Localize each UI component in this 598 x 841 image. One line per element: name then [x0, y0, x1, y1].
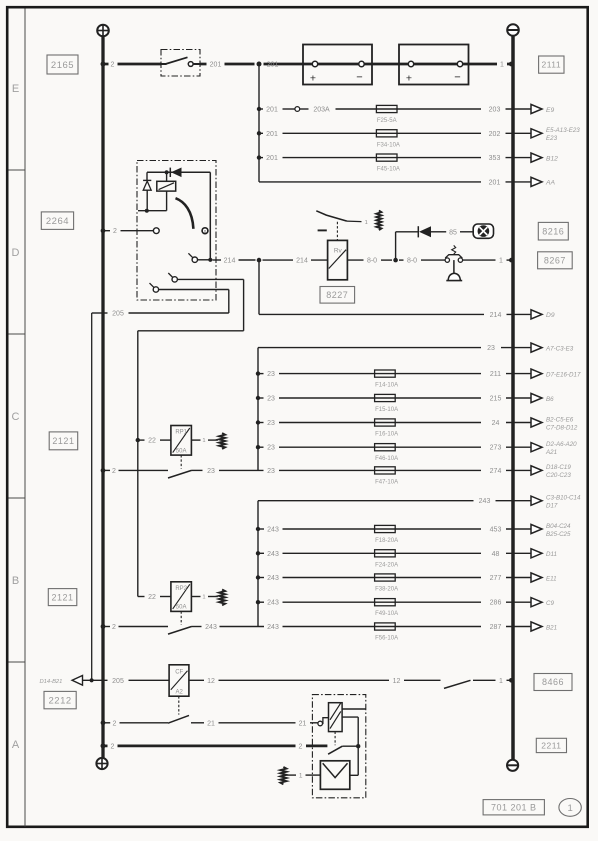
arrow to C9 [531, 598, 542, 607]
arrow to B12 [531, 153, 542, 162]
node 31 right ground bus [511, 36, 515, 760]
svg-text:F16-10A: F16-10A [375, 432, 398, 438]
pressure switch S2 [445, 258, 449, 262]
terminal minus bottom [507, 760, 518, 771]
svg-text:50A: 50A [176, 605, 187, 611]
svg-text:F34-10A: F34-10A [377, 142, 400, 148]
svg-text:E: E [12, 83, 19, 95]
fuse F56-10A [375, 623, 396, 630]
fuse F15-10A [375, 394, 396, 401]
mech link regulator [334, 732, 336, 746]
label 2165 [47, 55, 78, 74]
wire 22 to RP1 [136, 438, 140, 442]
svg-text:D7-E16-D17: D7-E16-D17 [546, 371, 581, 378]
svg-text:D17: D17 [546, 503, 558, 510]
relay RP1 [171, 426, 192, 456]
diode CR3 [417, 226, 419, 237]
svg-text:2121: 2121 [52, 436, 74, 446]
svg-text:50A: 50A [176, 448, 187, 454]
svg-text:24: 24 [492, 420, 500, 427]
svg-text:243: 243 [267, 551, 279, 558]
svg-text:8216: 8216 [542, 226, 564, 236]
svg-text:1: 1 [500, 62, 504, 69]
wire 201/353 fuse F45 [259, 157, 263, 159]
wire contact1 to node [198, 259, 211, 261]
svg-text:2165: 2165 [51, 60, 74, 71]
arrow to AA [531, 177, 542, 186]
svg-text:+: + [406, 73, 412, 85]
relay RP2 [171, 582, 192, 612]
svg-text:211: 211 [490, 371, 501, 378]
svg-text:F15-10A: F15-10A [375, 407, 398, 413]
wire to solenoid node [342, 745, 358, 747]
svg-text:CF: CF [175, 669, 183, 675]
fuse F38-20A [375, 574, 396, 581]
wire blade to spring [347, 220, 362, 223]
node 214 junction [257, 258, 262, 263]
node 8-0 [393, 258, 398, 263]
mech link RP2 [180, 611, 182, 624]
fuse F18-20A [375, 525, 396, 532]
wire regulator stub [342, 708, 366, 710]
svg-text:8227: 8227 [326, 290, 348, 300]
svg-text:E11: E11 [546, 575, 557, 582]
label 2111 [539, 56, 564, 73]
page number 1 [559, 799, 581, 817]
svg-text:+: + [310, 73, 316, 85]
svg-text:B21: B21 [546, 624, 557, 631]
diode CR2 [143, 179, 151, 181]
svg-text:C9: C9 [546, 600, 554, 607]
svg-text:A: A [12, 739, 20, 751]
svg-text:203: 203 [489, 107, 501, 114]
arrow to D9 [531, 310, 542, 319]
svg-text:F45-10A: F45-10A [377, 167, 400, 173]
wire 23 to A7-C3-E3 [258, 347, 481, 349]
svg-text:D18-C19: D18-C19 [546, 464, 571, 471]
wire 243 row fuse F56-10A [220, 626, 265, 628]
svg-text:A21: A21 [545, 449, 557, 456]
svg-text:201: 201 [266, 155, 278, 162]
svg-text:C3-B10-C14: C3-B10-C14 [546, 495, 581, 502]
svg-text:201: 201 [489, 179, 501, 186]
svg-text:203A: 203A [313, 107, 330, 114]
svg-text:B25-C25: B25-C25 [546, 531, 571, 538]
label 701 201 B [483, 800, 544, 815]
wire 1 to solenoid [287, 774, 296, 776]
label 2121 lower [48, 589, 77, 606]
wire 23 row fuse F15-10A [258, 397, 264, 399]
svg-text:243: 243 [267, 600, 279, 607]
svg-text:1: 1 [202, 595, 205, 601]
wire 2/21 row [101, 720, 106, 725]
label 2212 [44, 691, 76, 708]
wire 23 row fuse F16-10A [258, 422, 264, 424]
wire internal top [147, 171, 210, 173]
wire 1 battery to ground bus [469, 63, 498, 66]
svg-text:21: 21 [299, 720, 307, 727]
wire 23 row fuse F46-10A [258, 446, 264, 448]
svg-text:2: 2 [111, 743, 115, 750]
arrow to D2-A6-A20 [531, 443, 542, 452]
svg-text:23: 23 [267, 445, 275, 452]
svg-text:F24-20A: F24-20A [375, 562, 398, 568]
svg-text:205: 205 [112, 311, 124, 318]
svg-text:23: 23 [207, 468, 215, 475]
wire 85 [431, 231, 446, 233]
contact 2 [172, 277, 177, 282]
spring anchor relay [376, 211, 381, 231]
wire internal bottom [138, 210, 167, 212]
svg-text:201: 201 [267, 62, 279, 69]
starter solenoid M1 [320, 761, 349, 790]
svg-text:D: D [12, 247, 20, 259]
svg-text:12: 12 [393, 678, 401, 685]
contact feed [153, 228, 159, 234]
label 8466 [534, 674, 572, 691]
wire 12 row [189, 679, 204, 681]
fuse F16-10A [375, 419, 396, 426]
wire 1 to ground bus [463, 259, 496, 261]
svg-text:205: 205 [112, 678, 124, 685]
label 8216 [538, 222, 568, 240]
svg-text:243: 243 [267, 624, 279, 631]
battery G1 [303, 45, 372, 85]
svg-text:202: 202 [489, 131, 501, 138]
terminal minus top [507, 24, 519, 36]
arrow to C3-B10-C14 [531, 496, 542, 505]
arrow to B2-C5-E6 [531, 418, 542, 427]
ignition lock housing [137, 161, 216, 301]
svg-text:201: 201 [210, 62, 222, 69]
time relay CF [169, 665, 189, 696]
wire 2 to ignition [103, 230, 110, 232]
wire 23 row fuse F47-10A [219, 469, 264, 471]
svg-text:F49-10A: F49-10A [375, 611, 398, 617]
arrow to D18-C19 [531, 466, 542, 475]
svg-text:B: B [12, 575, 19, 587]
svg-text:243: 243 [479, 498, 491, 505]
svg-text:C: C [12, 411, 20, 423]
terminal plus top [97, 25, 109, 37]
warning lamp H1 [473, 224, 493, 238]
svg-text:2212: 2212 [49, 696, 72, 707]
switch S4 [168, 715, 189, 723]
svg-text:1: 1 [365, 220, 368, 226]
svg-text:F46-10A: F46-10A [375, 456, 398, 462]
spring anchor RP1 [219, 433, 225, 449]
connector on wire 203A [295, 107, 300, 112]
svg-text:RP1: RP1 [175, 430, 187, 436]
svg-text:277: 277 [490, 575, 502, 582]
wire RP2 to spring [191, 596, 200, 598]
svg-text:1: 1 [499, 258, 503, 265]
terminal plus bottom [96, 758, 107, 769]
spring anchor RP2 [219, 590, 225, 606]
svg-text:D11: D11 [546, 551, 557, 558]
wire 201 switch to battery [200, 63, 207, 66]
svg-text:2111: 2111 [541, 60, 561, 70]
svg-text:243: 243 [267, 527, 279, 534]
arrow to E9 [531, 104, 542, 113]
arrow to B21 [531, 622, 542, 631]
svg-text:2: 2 [112, 468, 116, 475]
svg-text:8466: 8466 [542, 677, 564, 687]
svg-text:353: 353 [489, 155, 501, 162]
rotary wiper arc [176, 198, 194, 229]
svg-text:C20-C23: C20-C23 [546, 472, 571, 479]
switch S3 [444, 680, 471, 688]
wire 23 row fuse F14-10A [258, 373, 264, 375]
node 23 distribution [257, 348, 259, 471]
svg-text:2: 2 [299, 743, 303, 750]
svg-text:AA: AA [545, 180, 555, 187]
wire 243 row fuse F24-20A [258, 552, 264, 554]
wire 201/203A fuse F25 [259, 108, 263, 110]
svg-text:2: 2 [113, 720, 117, 727]
label 2121 upper [49, 432, 77, 450]
battery master switch S1 [161, 50, 200, 77]
svg-text:2: 2 [113, 228, 117, 235]
svg-text:B6: B6 [546, 396, 554, 403]
svg-text:2: 2 [111, 62, 115, 69]
svg-text:B2-C5-E6: B2-C5-E6 [546, 416, 574, 423]
svg-text:243: 243 [205, 624, 217, 631]
arrow to D11 [531, 549, 542, 558]
contact 1 [192, 257, 197, 262]
svg-text:A2: A2 [176, 690, 184, 696]
starter switch blade [328, 746, 342, 754]
svg-text:B12: B12 [546, 155, 558, 162]
svg-text:286: 286 [490, 600, 502, 607]
svg-text:1: 1 [299, 773, 303, 780]
wire 205 row [83, 679, 108, 681]
wire 201/202 fuse F34 [259, 132, 263, 134]
relay switch blade [316, 211, 347, 221]
regulator U1 [329, 703, 343, 732]
svg-text:F14-10A: F14-10A [375, 383, 398, 389]
svg-text:2211: 2211 [541, 741, 561, 751]
alternator housing [312, 695, 365, 798]
svg-text:201: 201 [266, 131, 278, 138]
label 2264 [41, 212, 73, 230]
relay fixed plate [318, 229, 327, 231]
svg-text:D2-A6-A20: D2-A6-A20 [546, 441, 577, 448]
fuse F24-20A [375, 550, 396, 557]
svg-text:F56-10A: F56-10A [375, 636, 398, 642]
svg-text:214: 214 [296, 258, 308, 265]
switch contact RP2 [101, 624, 106, 629]
svg-text:8-0: 8-0 [367, 258, 377, 265]
svg-text:B04-C24: B04-C24 [546, 523, 571, 530]
svg-text:D14-B21: D14-B21 [40, 679, 63, 685]
fuse F25-5A [376, 105, 397, 112]
wire 243 row fuse F49-10A [258, 601, 264, 603]
svg-text:E23: E23 [546, 135, 558, 142]
svg-text:287: 287 [490, 624, 502, 631]
svg-text:F18-20A: F18-20A [375, 538, 398, 544]
node 201 distribution [258, 64, 260, 182]
svg-text:E9: E9 [546, 107, 554, 114]
wire 201 to AA [259, 181, 481, 183]
svg-text:201: 201 [266, 107, 278, 114]
svg-text:215: 215 [490, 396, 502, 403]
arrow to B04-C24 [531, 524, 542, 533]
svg-text:243: 243 [267, 575, 279, 582]
fuse F14-10A [375, 370, 396, 377]
svg-text:F47-10A: F47-10A [375, 479, 398, 485]
svg-text:D9: D9 [546, 312, 555, 319]
wire 205 run [159, 289, 229, 291]
wire 22 feed run [177, 278, 243, 280]
svg-text:12: 12 [207, 678, 215, 685]
svg-text:214: 214 [224, 258, 236, 265]
svg-text:22: 22 [148, 438, 156, 445]
wire left branch [146, 172, 148, 180]
fuse F47-10A [375, 467, 396, 474]
svg-text:−: − [454, 72, 460, 84]
wire 22 to RP2 [138, 596, 145, 598]
wire 21 to alternator [191, 722, 204, 724]
svg-text:2121: 2121 [52, 592, 74, 602]
wire 214 to D9 [258, 260, 260, 314]
wire RP1 to spring [191, 439, 200, 441]
svg-text:453: 453 [490, 527, 502, 534]
mech link RP1 [180, 455, 182, 469]
switch contact RP1 [101, 468, 106, 473]
arrow to B6 [531, 393, 542, 402]
mech link relay [336, 222, 338, 241]
svg-text:21: 21 [207, 720, 215, 727]
node junction coil top [165, 170, 169, 174]
arrow to E11 [531, 573, 542, 582]
key-in coil [157, 181, 176, 191]
svg-text:E5-A13-E23: E5-A13-E23 [546, 127, 580, 134]
svg-text:701 201 B: 701 201 B [491, 802, 537, 812]
label 8267 [538, 252, 573, 269]
svg-text:23: 23 [267, 420, 275, 427]
label 8227 [320, 287, 355, 304]
wire 243 to C3-B10-C14 [258, 500, 474, 502]
arrow to A7-C3-E3 [531, 343, 542, 352]
svg-text:C7-D8-D12: C7-D8-D12 [546, 424, 578, 431]
svg-text:1: 1 [567, 803, 572, 814]
svg-text:2: 2 [112, 624, 116, 631]
wire lamp branch [395, 232, 397, 260]
svg-text:273: 273 [490, 445, 502, 452]
contact 21 input [318, 721, 323, 726]
relay coil Rv 8227 [328, 240, 348, 279]
wire 2 starter row [101, 743, 106, 748]
svg-text:274: 274 [490, 468, 502, 475]
fuse F45-10A [376, 154, 397, 161]
svg-text:23: 23 [267, 468, 275, 475]
switch blade S1 [166, 57, 188, 64]
mech link CF [178, 696, 180, 714]
svg-text:214: 214 [490, 312, 502, 319]
svg-text:F38-20A: F38-20A [375, 587, 398, 593]
wire battery link [372, 63, 399, 66]
wire node to regulator [357, 717, 359, 775]
fuse F34-10A [376, 130, 397, 137]
svg-text:85: 85 [449, 229, 457, 236]
arrow to E5-A13-E23 [531, 129, 542, 138]
svg-text:Rv: Rv [334, 248, 343, 255]
svg-text:2264: 2264 [46, 216, 69, 227]
battery G2 [399, 45, 469, 85]
fuse F49-10A [375, 599, 396, 606]
svg-text:23: 23 [267, 371, 275, 378]
wire 1 to bus [473, 679, 496, 681]
svg-text:RP2: RP2 [175, 586, 187, 592]
svg-text:22: 22 [148, 594, 156, 601]
wire 243 row fuse F38-20A [258, 577, 264, 579]
svg-text:−: − [356, 72, 362, 84]
svg-text:1: 1 [202, 438, 205, 444]
node 30 left supply bus [101, 36, 104, 759]
svg-text:1: 1 [499, 678, 503, 685]
spring anchor starter [280, 767, 286, 784]
node 243 distribution [257, 501, 259, 627]
arrow to D7-E16-D17 [531, 369, 542, 378]
contact 0 [202, 228, 208, 234]
svg-text:8-0: 8-0 [407, 258, 417, 265]
svg-text:23: 23 [487, 345, 495, 352]
diode CR1 [169, 168, 171, 177]
wire 2 bus to battery switch [103, 63, 109, 66]
svg-text:F25-5A: F25-5A [377, 118, 397, 124]
svg-text:8267: 8267 [544, 256, 566, 266]
wire 8-0 relay out [347, 259, 363, 261]
svg-text:A7-C3-E3: A7-C3-E3 [545, 345, 574, 352]
svg-text:48: 48 [492, 551, 500, 558]
fuse F46-10A [375, 444, 396, 451]
contact 3 [153, 287, 158, 292]
wire 243 row fuse F18-20A [258, 528, 264, 530]
svg-text:23: 23 [267, 396, 275, 403]
label 2211 [536, 738, 566, 752]
wire 214 ignition to relay [213, 259, 222, 261]
